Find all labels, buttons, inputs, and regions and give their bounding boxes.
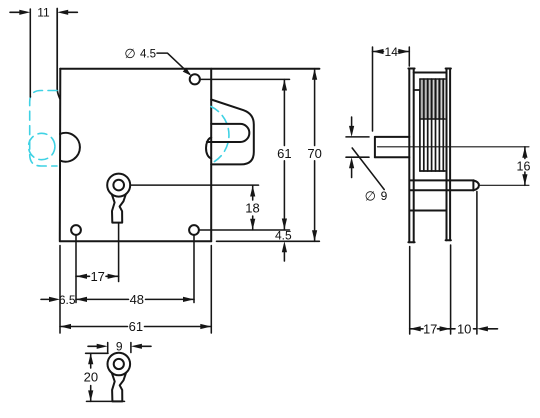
dimension 4.5 bottom right (275, 229, 292, 261)
spring coil wound section (gray) (420, 79, 445, 119)
drum core step (414, 90, 422, 171)
dimension 16 (517, 147, 531, 186)
dimension 14 (373, 45, 410, 131)
rung bar (410, 210, 447, 212)
dimension 17 bottom (76, 269, 119, 284)
svg-text:20: 20 (84, 369, 98, 384)
dimension 18 (130, 185, 260, 230)
dimension diameter 9 (side) (346, 117, 388, 204)
svg-text:16: 16 (517, 160, 531, 174)
svg-text:9: 9 (381, 189, 388, 203)
hole 4.5 top (190, 74, 200, 84)
label diameter 4.5 with leader (124, 46, 191, 76)
extension line bottom holes to 61 (199, 229, 289, 231)
dimension 17 (side) (410, 321, 451, 336)
extension lines bottom (side view) (410, 192, 477, 335)
svg-text:6.5: 6.5 (59, 293, 76, 307)
svg-text:17: 17 (423, 321, 437, 336)
dimension 70 vertical (307, 69, 321, 242)
dimension 61 bottom (60, 319, 211, 334)
extension line top hole to 61 (201, 78, 290, 80)
svg-text:∅: ∅ (365, 189, 376, 204)
svg-text:18: 18 (245, 201, 259, 216)
shaft boss (diameter 9) (375, 137, 409, 157)
drum top edge (414, 72, 447, 74)
dimension 61 vertical (277, 80, 291, 230)
dimension 6.5 (41, 293, 76, 307)
svg-text:61: 61 (129, 319, 143, 334)
svg-text:11: 11 (37, 6, 50, 20)
cam boss semicircle on left edge (60, 133, 80, 162)
svg-text:17: 17 (90, 269, 104, 284)
side view right flange (446, 69, 451, 241)
bottom hole right (189, 225, 199, 235)
svg-text:4.5: 4.5 (275, 229, 292, 243)
phantom cam circle (cyan dashed) (29, 133, 55, 159)
svg-text:10: 10 (457, 321, 471, 336)
extension lines below plate (60, 223, 211, 333)
svg-text:48: 48 (130, 292, 144, 307)
hook slot (207, 124, 250, 142)
svg-text:14: 14 (385, 45, 399, 59)
svg-text:70: 70 (307, 146, 321, 161)
plate outline (front view) (60, 69, 320, 242)
pin (410, 180, 479, 190)
shaft centerline (377, 146, 529, 148)
dimension 11 top left (10, 6, 77, 97)
extension line plate bottom to 70 (217, 240, 320, 242)
spring coil lower section (420, 119, 445, 171)
bottom hole left (71, 225, 81, 235)
phantom hook circle (cyan dashed) (211, 107, 229, 164)
lever edge at plate top-left (57, 9, 60, 99)
keyhole (front view) (107, 174, 130, 223)
pin centerline (480, 184, 530, 186)
dimension 48 (76, 292, 194, 307)
svg-text:9: 9 (116, 340, 123, 354)
hook latch outer outline (211, 100, 254, 165)
dimension 20 (detail) (84, 353, 125, 401)
svg-text:4.5: 4.5 (140, 49, 156, 61)
dimension 10 (side) (451, 321, 498, 336)
svg-text:∅: ∅ (124, 46, 135, 61)
keyhole detail view (108, 353, 131, 402)
phantom lever (cyan dashed) (30, 91, 57, 167)
hook bulge tab on plate edge (206, 138, 211, 159)
dimension 9 (detail) (88, 340, 151, 354)
side view plate (408, 69, 414, 243)
svg-text:61: 61 (277, 146, 291, 161)
